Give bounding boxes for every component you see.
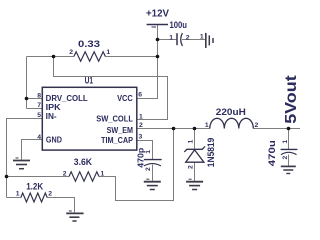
svg-text:SW_EM: SW_EM (107, 126, 133, 135)
svg-text:2: 2 (186, 34, 190, 41)
svg-text:4: 4 (37, 134, 41, 141)
svg-text:2: 2 (188, 165, 195, 169)
svg-text:3: 3 (139, 133, 143, 140)
svg-text:470u: 470u (267, 140, 277, 166)
svg-text:GND: GND (46, 136, 62, 145)
svg-text:TIM_CAP: TIM_CAP (101, 136, 133, 145)
svg-text:100u: 100u (170, 20, 188, 30)
svg-text:+12V: +12V (146, 9, 169, 20)
svg-text:2: 2 (282, 156, 289, 160)
svg-text:DRV_COLL: DRV_COLL (46, 94, 88, 103)
svg-text:1: 1 (106, 49, 110, 56)
svg-text:7: 7 (37, 102, 41, 109)
svg-text:0.33: 0.33 (78, 39, 100, 50)
svg-text:470p: 470p (136, 148, 145, 168)
svg-text:6: 6 (138, 91, 142, 98)
svg-text:1: 1 (16, 190, 20, 197)
svg-text:U1: U1 (85, 75, 93, 85)
svg-text:VCC: VCC (117, 94, 133, 103)
svg-text:1.2K: 1.2K (26, 182, 44, 192)
svg-text:1: 1 (139, 114, 143, 121)
svg-text:1: 1 (282, 140, 289, 144)
svg-text:2: 2 (48, 190, 52, 197)
svg-text:5Vout: 5Vout (283, 75, 300, 124)
svg-text:IPK: IPK (46, 103, 61, 112)
svg-text:5: 5 (37, 112, 41, 119)
svg-text:1: 1 (145, 150, 152, 154)
svg-text:1: 1 (101, 171, 105, 178)
svg-text:1N5819: 1N5819 (206, 138, 216, 168)
svg-text:2: 2 (255, 122, 259, 129)
svg-text:IN-: IN- (46, 112, 57, 121)
svg-text:1: 1 (169, 34, 173, 41)
svg-text:2: 2 (69, 49, 73, 56)
svg-text:220uH: 220uH (216, 107, 246, 117)
svg-text:2: 2 (63, 171, 67, 178)
svg-text:3.6K: 3.6K (74, 157, 92, 168)
svg-text:1: 1 (188, 140, 195, 144)
svg-text:1: 1 (200, 34, 204, 41)
svg-text:2: 2 (139, 122, 143, 129)
svg-text:2: 2 (145, 167, 152, 171)
svg-text:SW_COLL: SW_COLL (96, 115, 133, 124)
svg-text:1: 1 (205, 122, 209, 129)
svg-text:8: 8 (37, 93, 41, 100)
